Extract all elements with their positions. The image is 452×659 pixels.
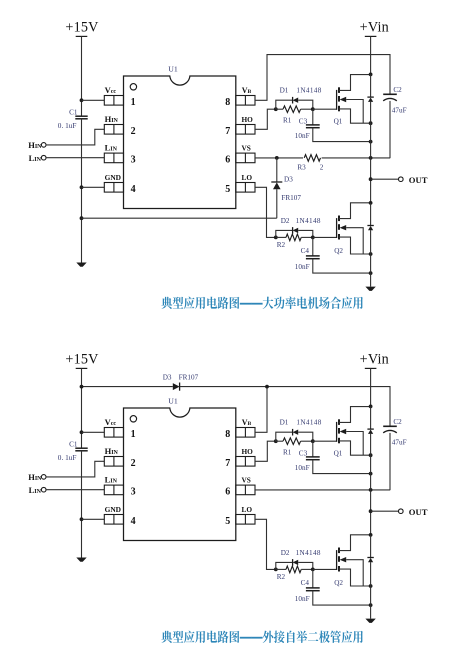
node GND junction (motor)	[80, 185, 84, 189]
wire C4 return (motor)	[313, 259, 371, 273]
wire HO to gate network (motor)	[255, 109, 276, 129]
wire GND pin4 (boot)	[82, 518, 105, 520]
svg-text:R2: R2	[277, 241, 286, 249]
svg-text:C2: C2	[393, 418, 402, 426]
svg-text:HO: HO	[242, 115, 254, 124]
wire to C3 (boot)	[312, 441, 314, 457]
node GND junction (boot)	[80, 517, 84, 521]
terminal HIN (boot)	[41, 475, 46, 480]
svg-text:C4: C4	[301, 579, 310, 587]
svg-text:D2: D2	[281, 217, 290, 225]
wire bus Q2 lower (boot)	[370, 562, 372, 586]
svg-text:C2: C2	[393, 86, 402, 94]
wire to C4 (boot)	[312, 569, 314, 588]
+Vin terminal bar (motor)	[365, 35, 377, 37]
svg-text:C4: C4	[301, 247, 310, 255]
svg-text:6: 6	[225, 155, 230, 166]
wire D1 cathode side (motor)	[298, 100, 313, 109]
node VS bus (boot)	[369, 488, 373, 492]
ground right (motor)	[365, 287, 375, 291]
svg-text:C3: C3	[299, 450, 308, 458]
capacitor C4 (motor)	[306, 256, 320, 259]
node Q2 source (motor)	[369, 252, 373, 256]
terminal LIN (boot)	[41, 487, 46, 492]
svg-text:D2: D2	[281, 549, 290, 557]
svg-text:1: 1	[131, 429, 136, 440]
node C3 return (motor)	[369, 140, 373, 144]
wire to OUT (boot)	[371, 510, 399, 512]
svg-text:R1: R1	[283, 448, 292, 456]
diode D2 1N4148 (motor)	[293, 227, 299, 234]
+15V terminal bar (motor)	[76, 35, 88, 37]
svg-text:1N4148: 1N4148	[296, 86, 321, 94]
svg-text:10nF: 10nF	[295, 132, 310, 140]
+Vin terminal bar (boot)	[365, 367, 377, 369]
node VS bus (motor)	[369, 156, 373, 160]
svg-text:U1: U1	[168, 397, 178, 406]
svg-text:8: 8	[225, 97, 230, 108]
node Vcc junction (boot)	[80, 430, 84, 434]
wire +Vin down (motor)	[370, 36, 372, 74]
wire VS (motor)	[255, 157, 390, 159]
diode Q2 body (boot)	[367, 558, 373, 563]
wire bus Q2 lower (motor)	[370, 230, 372, 254]
svg-text:GND: GND	[105, 505, 121, 514]
svg-text:2: 2	[320, 164, 324, 172]
terminal OUT (motor)	[399, 177, 404, 182]
wire C2 to VS (motor)	[389, 101, 391, 158]
wire +15V down to C1 (motor)	[81, 36, 83, 116]
svg-text:2: 2	[131, 126, 136, 137]
svg-text:R3: R3	[297, 164, 306, 172]
wire bus Q1 lower (motor)	[370, 102, 372, 142]
node Q2 source (boot)	[369, 584, 373, 588]
svg-text:LO: LO	[242, 173, 253, 182]
wire D1 anode side (motor)	[276, 100, 293, 109]
svg-text:3: 3	[131, 487, 136, 498]
svg-text:0. 1uF: 0. 1uF	[58, 453, 77, 462]
svg-text:10nF: 10nF	[295, 595, 310, 603]
wire to Q1 gate (boot)	[313, 440, 337, 442]
transistor Q2 MOSFET (boot)	[337, 535, 371, 586]
svg-text:+15V: +15V	[65, 20, 99, 36]
wire to OUT (motor)	[371, 178, 399, 180]
wire bus Q2 upper (motor)	[370, 203, 372, 226]
diode Q1 body (boot)	[367, 429, 373, 434]
terminal HIN (motor)	[41, 143, 46, 148]
wire VS to D3 cathode	[276, 158, 278, 182]
node gate Q2 (boot)	[311, 568, 315, 572]
wire +15V down to C1 (boot)	[81, 368, 83, 448]
capacitor C3 (boot)	[306, 457, 320, 460]
pin 6 box (motor)	[236, 153, 255, 163]
diode D1 1N4148 (motor)	[293, 97, 299, 104]
U1 pin-1 indicator circle (motor)	[130, 84, 136, 90]
resistor R3	[303, 153, 322, 162]
wire to C3 (motor)	[312, 109, 314, 125]
svg-text:OUT: OUT	[409, 175, 428, 185]
wire to Q2 gate (boot)	[313, 568, 337, 570]
wire bus phase node (motor)	[370, 142, 372, 203]
caption top: motor application	[161, 297, 362, 309]
wire R1 left lead (boot)	[276, 440, 283, 442]
capacitor C2 47uF (boot)	[383, 426, 397, 433]
wire D3 anode down	[276, 189, 278, 218]
svg-text:U1: U1	[168, 65, 178, 74]
wire LO to gate network (motor)	[255, 187, 276, 237]
svg-text:47uF: 47uF	[392, 107, 407, 115]
wire D3 cathode to C2 (boot)	[180, 387, 390, 427]
wire bus to ground (boot)	[370, 586, 372, 619]
pin 1 box (boot)	[104, 428, 123, 438]
pin 5 box (motor)	[236, 183, 255, 193]
pin 1 box (motor)	[104, 96, 123, 106]
node Vcc junction (motor)	[80, 98, 84, 102]
wire to Q1 gate (motor)	[313, 108, 337, 110]
node Q2 drain (motor)	[369, 201, 373, 205]
wire LIN to pin3 (boot)	[46, 489, 104, 491]
svg-text:Q2: Q2	[334, 247, 343, 255]
node VS-D3 (motor)	[275, 156, 279, 160]
+15V terminal bar (boot)	[76, 367, 88, 369]
node OUT tap (boot)	[369, 509, 373, 513]
capacitor C1 (boot)	[75, 448, 87, 451]
wire R2 left lead (boot)	[276, 568, 286, 570]
capacitor C1 (motor)	[75, 116, 87, 119]
pin 2 box (boot)	[104, 457, 123, 467]
U1 pin-1 indicator circle (boot)	[130, 416, 136, 422]
ground left (motor)	[76, 263, 86, 267]
pin 6 box (boot)	[236, 485, 255, 495]
svg-text:VS: VS	[242, 476, 251, 485]
capacitor C3 (motor)	[306, 125, 320, 128]
svg-text:D3: D3	[163, 373, 172, 381]
svg-text:R1: R1	[283, 116, 292, 124]
wire to C4 (motor)	[312, 237, 314, 256]
wire bus Q1 lower (boot)	[370, 434, 372, 474]
svg-text:Q2: Q2	[334, 579, 343, 587]
svg-text:1N4148: 1N4148	[296, 217, 321, 225]
wire Vcc pin1 (boot)	[82, 431, 105, 433]
wire bus to ground (motor)	[370, 254, 372, 287]
wire D2 anode side (motor)	[276, 230, 293, 237]
diode Q2 body (motor)	[367, 226, 373, 231]
svg-text:7: 7	[225, 126, 230, 137]
svg-text:2: 2	[131, 458, 136, 469]
ground left (boot)	[76, 558, 86, 562]
node VB rail junction (boot)	[265, 385, 269, 389]
pin 7 box (motor)	[236, 125, 255, 135]
wire D1 anode side (boot)	[276, 432, 293, 441]
wire GND pin4 (motor)	[82, 186, 105, 188]
pin 8 box (boot)	[236, 428, 255, 438]
wire C3 return (motor)	[313, 128, 371, 142]
node Q1 drain (boot)	[369, 405, 373, 409]
svg-text:1: 1	[131, 97, 136, 108]
node R1 left (motor)	[274, 107, 278, 111]
wire R1 right lead (boot)	[301, 440, 313, 442]
terminal LIN (motor)	[41, 155, 46, 160]
wire bus Q1 upper (motor)	[370, 74, 372, 97]
svg-text:4: 4	[131, 184, 136, 195]
wire bus phase node (boot)	[370, 474, 372, 535]
diode D1 1N4148 (boot)	[293, 429, 299, 436]
node R1 left (boot)	[274, 439, 278, 443]
node gate Q1 (boot)	[311, 439, 315, 443]
diode D3 FR107 freewheel	[271, 182, 282, 189]
diode Q1 body (motor)	[367, 97, 373, 102]
svg-text:+Vin: +Vin	[360, 352, 389, 368]
caption bottom: external bootstrap diode application	[161, 631, 362, 643]
pin 4 box (boot)	[104, 515, 123, 525]
wire D2 cathode side (boot)	[298, 562, 313, 569]
transistor Q1 MOSFET (motor)	[337, 75, 371, 124]
svg-text:D3: D3	[284, 176, 293, 184]
resistor R2 (motor)	[286, 234, 301, 241]
node Q1 drain (motor)	[369, 73, 373, 77]
capacitor C4 (boot)	[306, 588, 320, 591]
wire R2 left lead (motor)	[276, 236, 286, 238]
node OUT tap (motor)	[369, 177, 373, 181]
svg-text:4: 4	[131, 516, 136, 527]
svg-text:FR107: FR107	[281, 194, 301, 202]
pin 3 box (motor)	[104, 153, 123, 163]
wire LO to gate network (boot)	[255, 519, 276, 569]
svg-text:5: 5	[225, 184, 230, 195]
wire bus Q1 upper (boot)	[370, 406, 372, 429]
op-amp driver IC U1 body (boot)	[124, 408, 236, 541]
node +15V rail junction (boot)	[80, 385, 84, 389]
wire R1 left lead (motor)	[276, 108, 283, 110]
capacitor C2 47uF (motor)	[383, 94, 397, 101]
wire VB to bootstrap rail to C2 (motor)	[255, 55, 390, 101]
svg-text:47uF: 47uF	[392, 439, 407, 447]
pin 5 box (boot)	[236, 515, 255, 525]
node R2 left (motor)	[274, 236, 278, 240]
svg-text:C1: C1	[69, 109, 78, 117]
svg-text:C3: C3	[299, 118, 308, 126]
pin 2 box (motor)	[104, 125, 123, 135]
node Q2 drain (boot)	[369, 533, 373, 537]
svg-text:HO: HO	[242, 447, 254, 456]
node gate Q2 (motor)	[311, 236, 315, 240]
wire C4 return (boot)	[313, 591, 371, 605]
wire R1 right lead (motor)	[301, 108, 313, 110]
resistor R1 (motor)	[283, 106, 301, 113]
node C4 return (boot)	[369, 603, 373, 607]
svg-text:8: 8	[225, 429, 230, 440]
wire R2 right lead (motor)	[301, 236, 313, 238]
svg-text:1N4148: 1N4148	[296, 418, 321, 426]
svg-text:3: 3	[131, 155, 136, 166]
terminal OUT (boot)	[399, 509, 404, 514]
wire +15V to D3 anode (boot)	[82, 386, 173, 388]
wire D2 cathode side (motor)	[298, 230, 313, 237]
ground right (boot)	[365, 619, 375, 623]
transistor Q1 MOSFET (boot)	[337, 407, 371, 456]
svg-text:OUT: OUT	[409, 507, 428, 517]
svg-text:5: 5	[225, 516, 230, 527]
node gate Q1 (motor)	[311, 107, 315, 111]
pin 8 box (motor)	[236, 96, 255, 106]
wire to Q2 gate (motor)	[313, 236, 337, 238]
svg-text:Q1: Q1	[334, 450, 343, 458]
wire HO to gate network (boot)	[255, 441, 276, 461]
node C4 return (motor)	[369, 271, 373, 275]
diode D3 FR107 bootstrap	[173, 383, 180, 391]
pin 7 box (boot)	[236, 457, 255, 467]
wire D2 anode side (boot)	[276, 562, 293, 569]
svg-text:FR107: FR107	[179, 373, 199, 381]
svg-text:6: 6	[225, 487, 230, 498]
wire HIN to pin2 (boot)	[46, 461, 104, 477]
transistor Q2 MOSFET (motor)	[337, 203, 371, 254]
wire bus Q2 upper (boot)	[370, 535, 372, 558]
wire R2 right lead (boot)	[301, 568, 313, 570]
svg-text:GND: GND	[105, 173, 121, 182]
wire C1 to ground (boot)	[81, 451, 83, 558]
svg-text:LO: LO	[242, 505, 253, 514]
node Q1 source (boot)	[369, 453, 373, 457]
svg-text:7: 7	[225, 458, 230, 469]
svg-text:D1: D1	[280, 418, 289, 426]
wire C1 to ground (motor)	[81, 119, 83, 263]
wire ground rail to D3	[82, 217, 277, 219]
op-amp driver IC U1 body (motor)	[124, 76, 236, 209]
wire D1 cathode side (boot)	[298, 432, 313, 441]
wire HIN to pin2 (motor)	[46, 129, 104, 145]
svg-text:10nF: 10nF	[295, 464, 310, 472]
wire VB riser (boot)	[255, 387, 267, 433]
resistor R1 (boot)	[283, 438, 301, 445]
svg-text:0. 1uF: 0. 1uF	[58, 121, 77, 130]
wire C3 return (boot)	[313, 460, 371, 474]
node C3 return (boot)	[369, 472, 373, 476]
svg-text:10nF: 10nF	[295, 263, 310, 271]
wire Vcc pin1 (motor)	[82, 99, 105, 101]
svg-text:+15V: +15V	[65, 352, 99, 368]
wire +Vin down (boot)	[370, 368, 372, 406]
svg-text:R2: R2	[277, 573, 286, 581]
node R2 left (boot)	[274, 568, 278, 572]
svg-text:D1: D1	[280, 86, 289, 94]
node Q1 source (motor)	[369, 121, 373, 125]
wire C2 to VS (boot)	[389, 433, 391, 490]
pin 4 box (motor)	[104, 183, 123, 193]
svg-text:Q1: Q1	[334, 118, 343, 126]
svg-text:VS: VS	[242, 144, 251, 153]
svg-text:+Vin: +Vin	[360, 20, 389, 36]
resistor R3 zigzag	[304, 155, 320, 162]
wire LIN to pin3 (motor)	[46, 157, 104, 159]
node ground rail junction (motor)	[80, 216, 84, 220]
wire VS (boot)	[255, 489, 390, 491]
diode D2 1N4148 (boot)	[293, 559, 299, 566]
svg-text:1N4148: 1N4148	[296, 549, 321, 557]
svg-text:C1: C1	[69, 441, 78, 449]
resistor R2 (boot)	[286, 566, 301, 573]
pin 3 box (boot)	[104, 485, 123, 495]
